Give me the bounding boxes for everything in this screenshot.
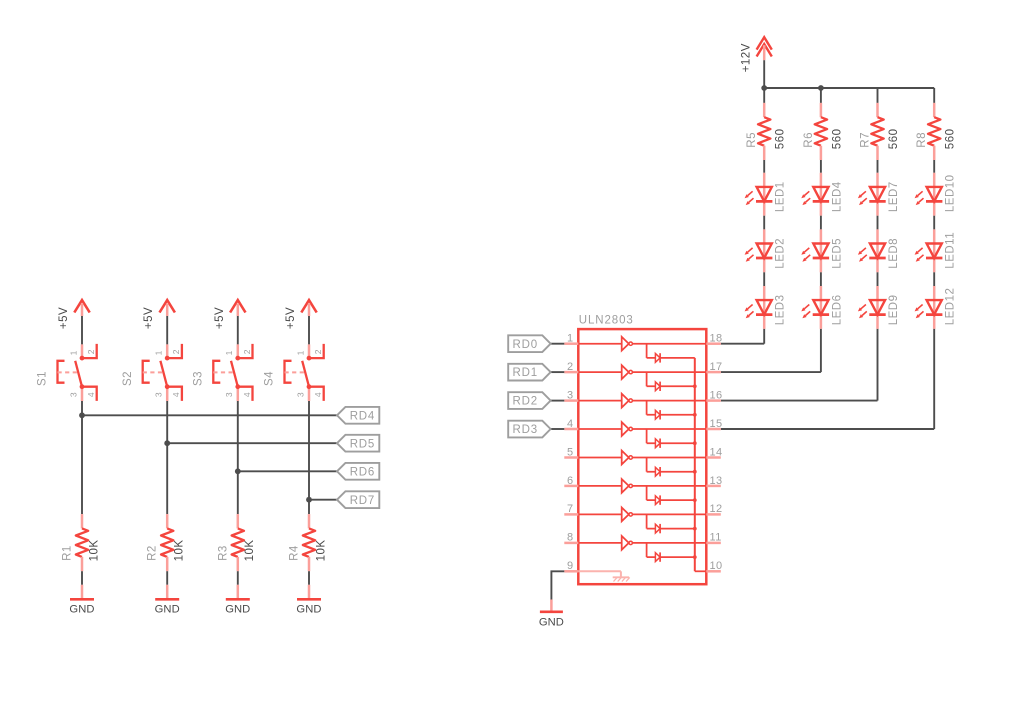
svg-text:2: 2	[171, 349, 181, 354]
svg-text:560: 560	[831, 129, 843, 150]
svg-text:GND: GND	[296, 604, 321, 616]
svg-text:6: 6	[567, 475, 574, 487]
svg-text:R1: R1	[62, 545, 74, 561]
svg-text:11: 11	[710, 532, 722, 544]
svg-text:13: 13	[710, 475, 723, 487]
svg-text:R7: R7	[860, 132, 872, 148]
svg-text:17: 17	[710, 361, 723, 373]
svg-text:LED11: LED11	[945, 232, 957, 269]
svg-text:R8: R8	[916, 132, 928, 148]
svg-text:1: 1	[567, 333, 574, 345]
svg-text:LED4: LED4	[831, 181, 843, 212]
svg-text:RD5: RD5	[350, 438, 375, 450]
svg-text:S1: S1	[37, 371, 49, 386]
svg-text:RD7: RD7	[350, 495, 375, 507]
svg-text:7: 7	[567, 503, 574, 515]
svg-text:RD3: RD3	[512, 424, 537, 436]
svg-text:LED5: LED5	[831, 238, 843, 269]
svg-text:S2: S2	[122, 371, 134, 386]
svg-text:1: 1	[154, 350, 164, 355]
svg-text:ULN2803: ULN2803	[579, 314, 634, 326]
svg-text:14: 14	[710, 446, 723, 458]
svg-text:+5V: +5V	[285, 307, 297, 329]
svg-text:4: 4	[313, 392, 323, 397]
svg-text:R2: R2	[147, 545, 159, 561]
svg-text:560: 560	[945, 129, 957, 150]
svg-text:10K: 10K	[174, 539, 186, 561]
svg-text:LED9: LED9	[888, 295, 900, 326]
svg-text:4: 4	[567, 418, 574, 430]
svg-text:RD6: RD6	[350, 466, 375, 478]
svg-text:16: 16	[710, 389, 723, 401]
svg-text:1: 1	[295, 350, 305, 355]
svg-text:3: 3	[295, 392, 305, 397]
svg-text:4: 4	[86, 392, 96, 397]
svg-text:15: 15	[710, 418, 723, 430]
svg-text:+5V: +5V	[143, 307, 155, 329]
svg-text:GND: GND	[225, 604, 250, 616]
svg-text:560: 560	[888, 129, 900, 150]
svg-text:2: 2	[567, 361, 574, 373]
svg-text:2: 2	[86, 349, 96, 354]
svg-text:+5V: +5V	[58, 307, 70, 329]
svg-text:18: 18	[710, 333, 723, 345]
svg-text:8: 8	[567, 532, 574, 544]
svg-text:GND: GND	[69, 604, 94, 616]
svg-text:1: 1	[224, 350, 234, 355]
svg-text:R3: R3	[217, 545, 229, 561]
svg-text:S3: S3	[192, 371, 204, 386]
svg-text:9: 9	[567, 560, 574, 572]
svg-text:LED6: LED6	[831, 295, 843, 326]
svg-text:2: 2	[313, 349, 323, 354]
svg-text:LED10: LED10	[945, 174, 957, 212]
svg-text:12: 12	[710, 503, 723, 515]
svg-text:R5: R5	[746, 132, 758, 148]
svg-text:560: 560	[775, 129, 787, 150]
svg-text:3: 3	[68, 392, 78, 397]
svg-text:3: 3	[224, 392, 234, 397]
svg-text:LED3: LED3	[775, 295, 787, 326]
svg-text:GND: GND	[539, 616, 564, 628]
svg-text:R4: R4	[289, 545, 301, 561]
svg-text:RD2: RD2	[512, 396, 537, 408]
svg-text:LED1: LED1	[775, 181, 787, 212]
svg-text:10K: 10K	[315, 539, 327, 561]
svg-text:R6: R6	[803, 132, 815, 148]
svg-text:10K: 10K	[244, 539, 256, 561]
svg-text:1: 1	[68, 350, 78, 355]
svg-text:10K: 10K	[88, 539, 100, 561]
svg-text:2: 2	[242, 349, 252, 354]
svg-text:10: 10	[710, 560, 723, 572]
svg-text:RD4: RD4	[350, 410, 375, 422]
svg-text:4: 4	[171, 392, 181, 397]
svg-text:RD0: RD0	[512, 339, 537, 351]
svg-text:LED8: LED8	[888, 238, 900, 269]
svg-text:LED7: LED7	[888, 181, 900, 212]
svg-text:+12V: +12V	[741, 43, 753, 72]
svg-text:LED12: LED12	[945, 288, 957, 326]
svg-text:3: 3	[567, 389, 574, 401]
svg-text:5: 5	[567, 446, 574, 458]
svg-text:3: 3	[154, 392, 164, 397]
svg-text:LED2: LED2	[775, 238, 787, 269]
svg-text:4: 4	[242, 392, 252, 397]
svg-text:RD1: RD1	[512, 367, 537, 379]
svg-text:+5V: +5V	[214, 307, 226, 329]
svg-text:S4: S4	[264, 371, 276, 386]
svg-text:GND: GND	[155, 604, 180, 616]
